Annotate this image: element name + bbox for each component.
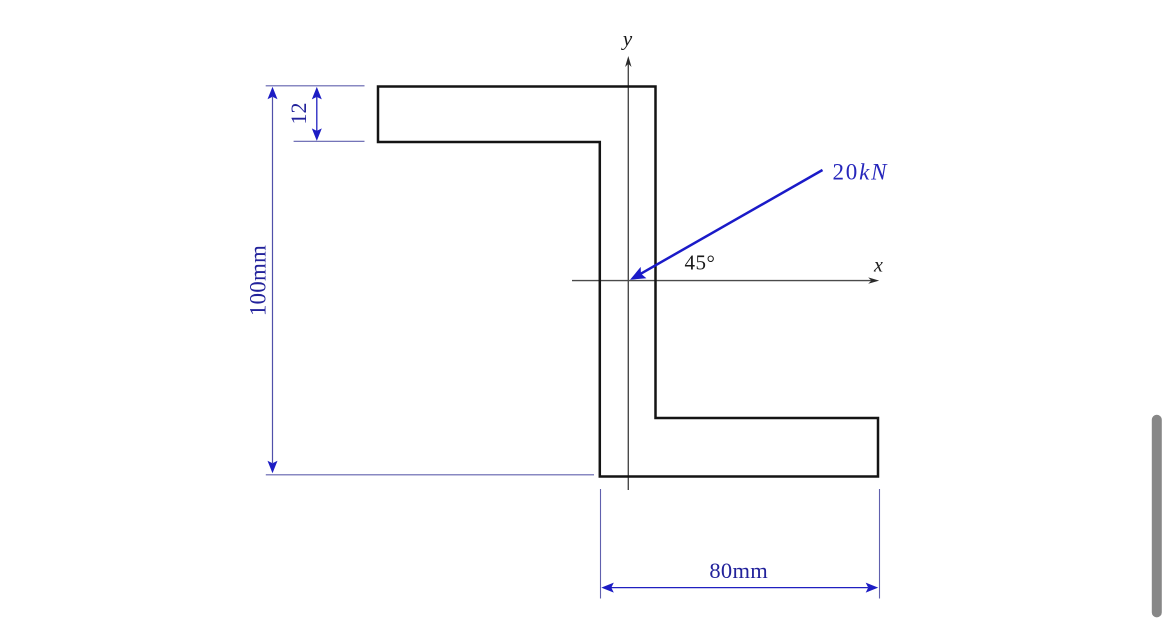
scrollbar thumb	[1152, 415, 1162, 618]
dimension 80mm arrow	[601, 583, 878, 593]
svg-text:100mm: 100mm	[245, 245, 270, 316]
svg-text:x: x	[873, 255, 883, 277]
svg-text:80mm: 80mm	[709, 558, 768, 583]
80mm extension line right	[879, 489, 881, 599]
dimension 100mm arrow	[268, 87, 278, 474]
svg-text:20kN: 20kN	[833, 160, 889, 185]
svg-text:45°: 45°	[685, 250, 716, 274]
dimension 12 arrow	[312, 87, 322, 141]
svg-text:y: y	[621, 27, 633, 51]
force arrow 20kN	[630, 170, 823, 280]
dimension extension line top (y=86)	[266, 85, 365, 87]
dimension extension line flange bottom (y=141.3)	[294, 140, 365, 142]
x-axis	[572, 277, 879, 283]
Z-section outline	[378, 87, 878, 477]
y-axis	[625, 56, 631, 490]
svg-text:12: 12	[286, 103, 311, 125]
dimension extension line bottom (y=474.8)	[266, 474, 594, 476]
80mm extension line left	[600, 489, 602, 599]
